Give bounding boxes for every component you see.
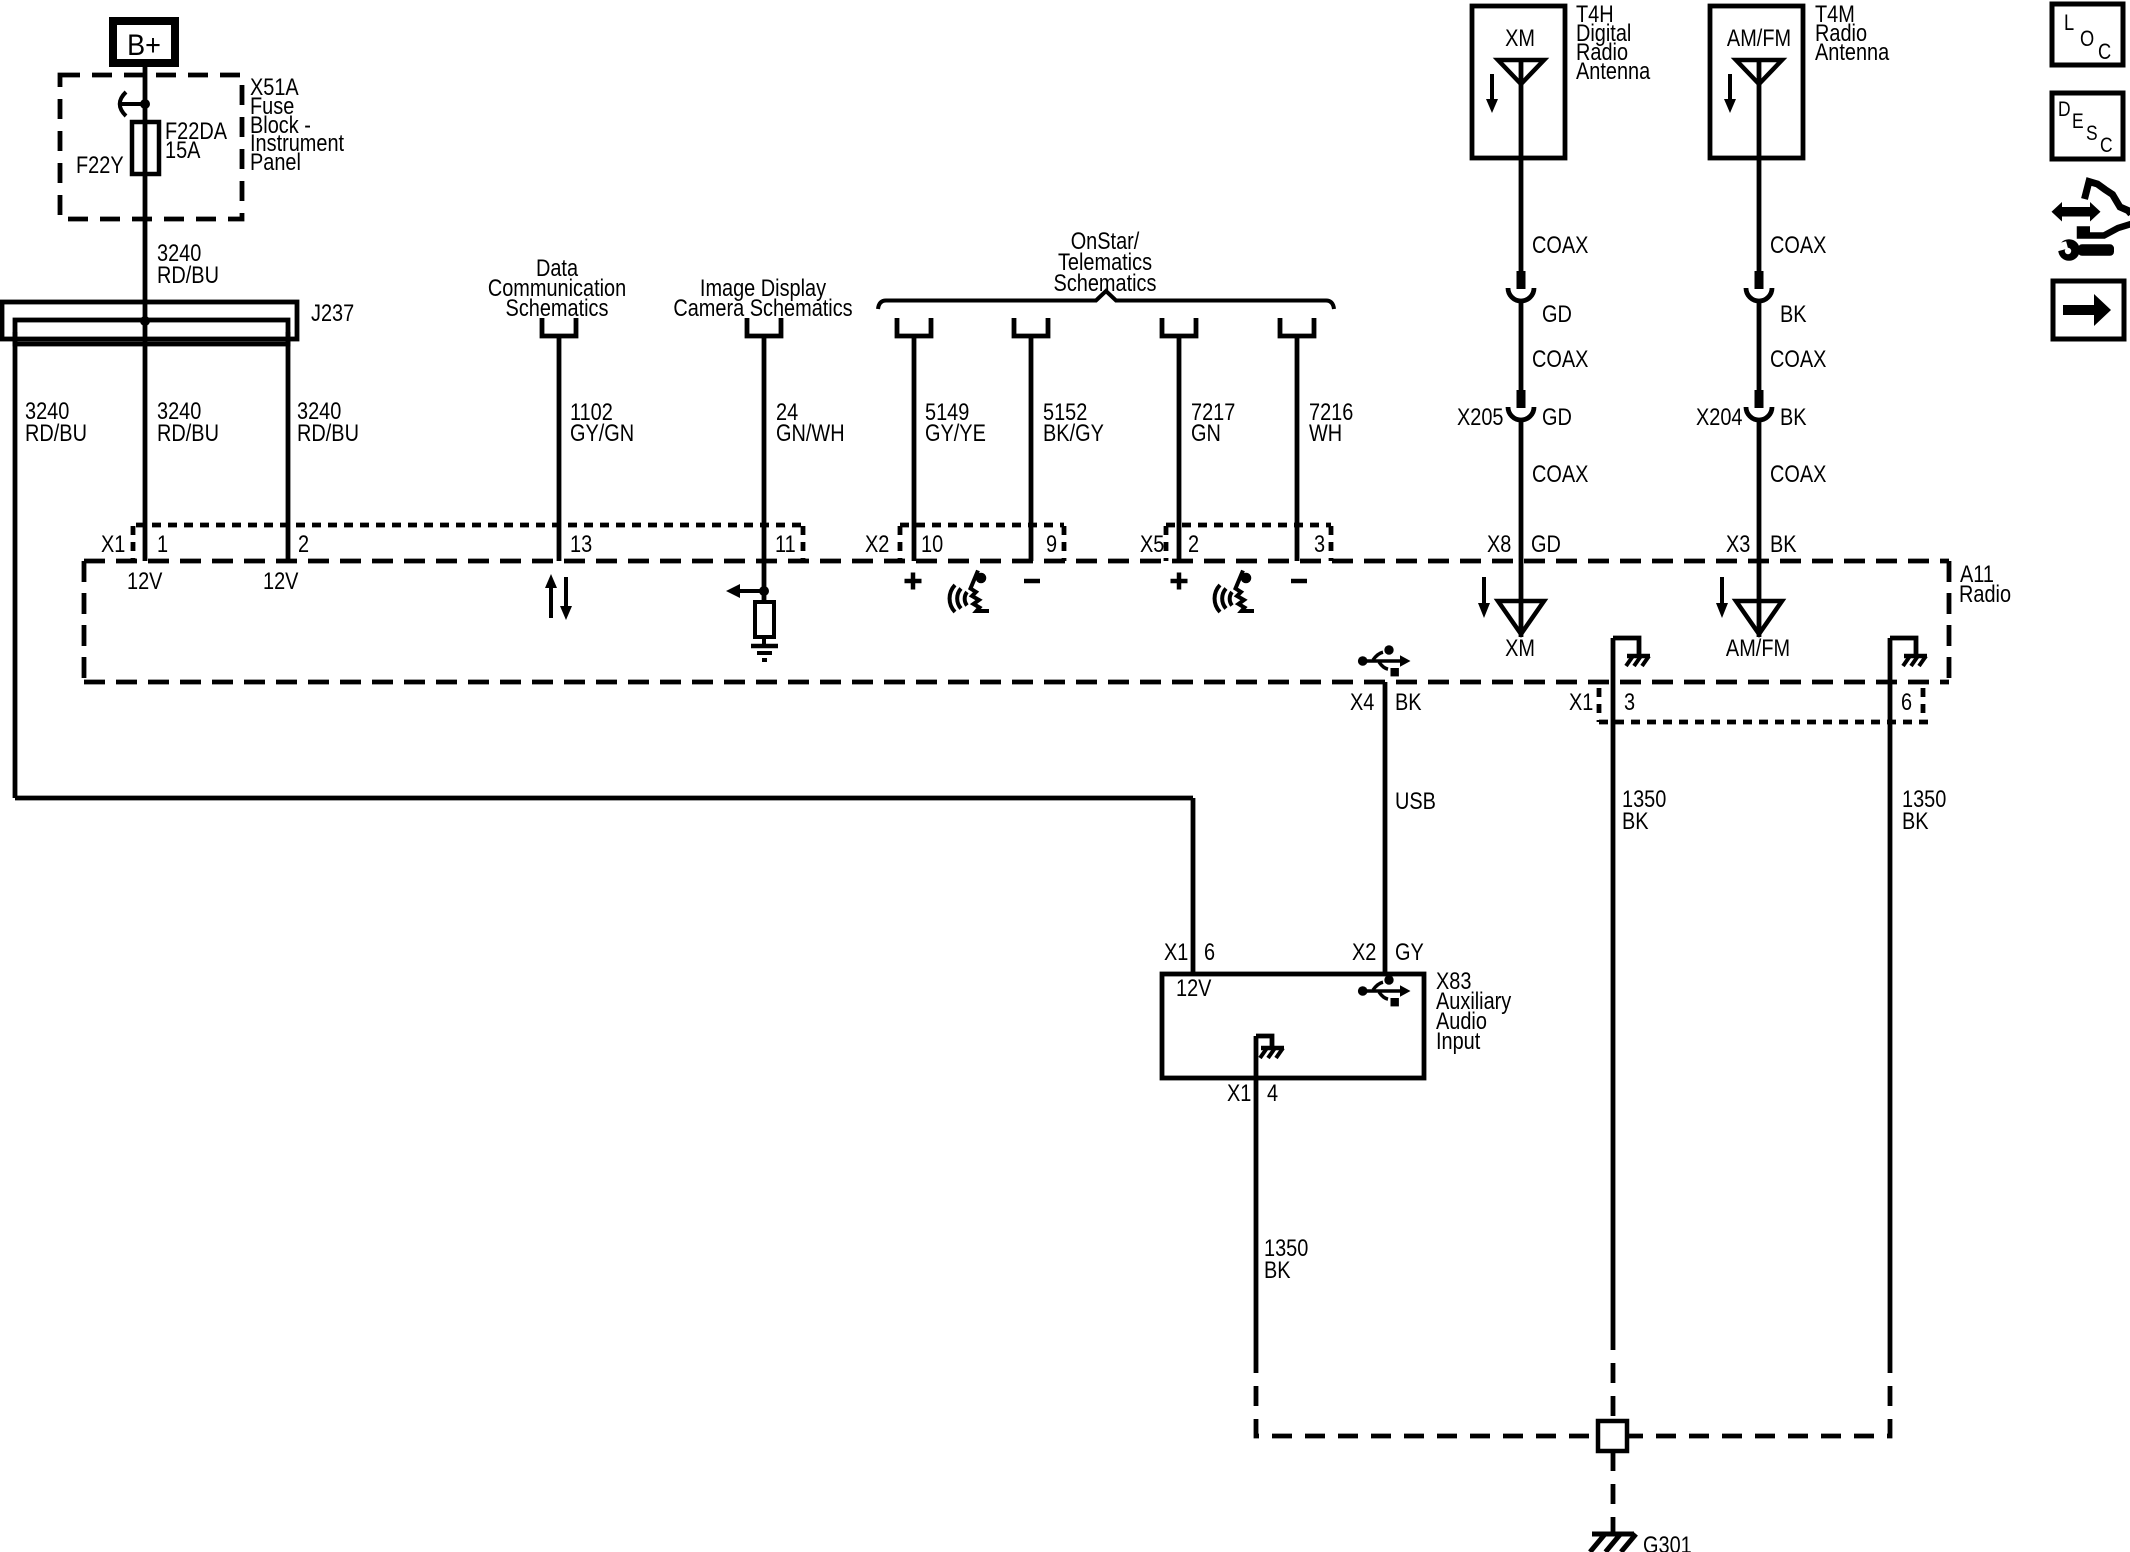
svg-text:AM/FM: AM/FM <box>1727 24 1791 51</box>
svg-text:BK: BK <box>1770 530 1797 557</box>
svg-text:RD/BU: RD/BU <box>157 419 219 446</box>
svg-text:COAX: COAX <box>1770 460 1827 487</box>
svg-text:11: 11 <box>775 530 796 557</box>
svg-text:BK: BK <box>1780 300 1807 327</box>
svg-text:X2: X2 <box>1352 938 1376 965</box>
svg-text:BK: BK <box>1902 807 1929 834</box>
svg-text:GD: GD <box>1542 300 1572 327</box>
svg-text:Antenna: Antenna <box>1576 57 1651 84</box>
svg-text:2: 2 <box>1188 530 1199 557</box>
svg-text:L: L <box>2064 12 2074 36</box>
svg-text:4: 4 <box>1267 1079 1278 1106</box>
svg-text:X3: X3 <box>1726 530 1750 557</box>
svg-text:GD: GD <box>1531 530 1561 557</box>
svg-text:BK/GY: BK/GY <box>1043 419 1104 446</box>
svg-text:12V: 12V <box>263 567 299 594</box>
svg-text:XM: XM <box>1505 634 1535 661</box>
svg-text:COAX: COAX <box>1770 345 1827 372</box>
svg-text:E: E <box>2072 111 2084 134</box>
svg-text:X1: X1 <box>1164 938 1188 965</box>
svg-text:D: D <box>2058 99 2071 122</box>
svg-text:B+: B+ <box>127 29 161 63</box>
svg-text:BK: BK <box>1395 688 1422 715</box>
svg-text:COAX: COAX <box>1532 345 1589 372</box>
svg-text:X5: X5 <box>1140 530 1164 557</box>
svg-text:X4: X4 <box>1350 688 1374 715</box>
svg-text:X204: X204 <box>1696 403 1743 430</box>
svg-text:3: 3 <box>1624 688 1635 715</box>
svg-text:XM: XM <box>1505 24 1535 51</box>
svg-text:Schematics: Schematics <box>506 294 609 321</box>
svg-text:13: 13 <box>570 530 592 557</box>
svg-text:10: 10 <box>921 530 943 557</box>
svg-text:GY: GY <box>1395 938 1424 965</box>
svg-text:AM/FM: AM/FM <box>1726 634 1790 661</box>
svg-text:F22Y: F22Y <box>76 151 124 178</box>
svg-text:9: 9 <box>1046 530 1057 557</box>
svg-text:COAX: COAX <box>1532 460 1589 487</box>
svg-text:Radio: Radio <box>1959 580 2011 607</box>
svg-text:2: 2 <box>298 530 309 557</box>
svg-text:GN: GN <box>1191 419 1221 446</box>
svg-text:15A: 15A <box>165 136 201 163</box>
svg-text:GD: GD <box>1542 403 1572 430</box>
svg-text:GY/YE: GY/YE <box>925 419 986 446</box>
svg-text:COAX: COAX <box>1770 231 1827 258</box>
svg-text:GN/WH: GN/WH <box>776 419 845 446</box>
svg-text:12V: 12V <box>1176 974 1212 1001</box>
svg-text:X2: X2 <box>865 530 889 557</box>
svg-text:BK: BK <box>1622 807 1649 834</box>
svg-text:X1: X1 <box>1227 1079 1251 1106</box>
svg-text:RD/BU: RD/BU <box>297 419 359 446</box>
svg-text:COAX: COAX <box>1532 231 1589 258</box>
svg-text:C: C <box>2098 41 2111 65</box>
svg-text:BK: BK <box>1780 403 1807 430</box>
svg-text:GY/GN: GY/GN <box>570 419 634 446</box>
svg-text:X1: X1 <box>1569 688 1593 715</box>
svg-text:USB: USB <box>1395 787 1436 814</box>
svg-text:X8: X8 <box>1487 530 1511 557</box>
svg-text:RD/BU: RD/BU <box>157 261 219 288</box>
svg-text:12V: 12V <box>127 567 163 594</box>
svg-text:J237: J237 <box>311 299 354 326</box>
svg-text:3: 3 <box>1314 530 1325 557</box>
svg-text:6: 6 <box>1901 688 1912 715</box>
svg-text:RD/BU: RD/BU <box>25 419 87 446</box>
svg-text:S: S <box>2086 123 2098 146</box>
svg-text:WH: WH <box>1309 419 1342 446</box>
svg-text:C: C <box>2100 135 2113 158</box>
svg-text:Antenna: Antenna <box>1815 38 1890 65</box>
svg-text:X205: X205 <box>1457 403 1504 430</box>
svg-text:O: O <box>2080 28 2094 52</box>
svg-text:X1: X1 <box>101 530 125 557</box>
svg-text:Input: Input <box>1436 1027 1480 1054</box>
svg-text:G301: G301 <box>1643 1531 1692 1552</box>
svg-text:6: 6 <box>1204 938 1215 965</box>
svg-text:Camera Schematics: Camera Schematics <box>673 294 852 321</box>
svg-text:BK: BK <box>1264 1256 1291 1283</box>
svg-text:1: 1 <box>157 530 168 557</box>
svg-text:Panel: Panel <box>250 148 301 175</box>
